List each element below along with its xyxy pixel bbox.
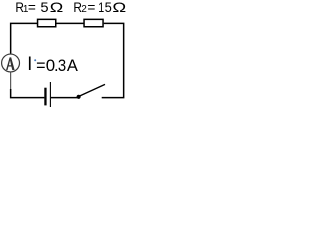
svg-text:I: I [27,54,32,75]
battery B1 positive plate (long thin) [49,82,51,108]
wire between R1 and R2 [56,22,83,24]
svg-text:3: 3 [58,57,66,75]
wire battery to switch pivot [51,97,77,99]
svg-text:2: 2 [81,4,87,15]
value label R1=5Ω [15,0,63,15]
resistor R1 [38,19,56,26]
value label R2=15Ω [73,0,126,15]
svg-text:A: A [67,57,78,75]
switch S1 pivot dot [77,95,81,99]
ammeter A1 circle [2,54,20,72]
svg-text:5: 5 [105,0,112,15]
svg-text:Ω: Ω [50,0,64,15]
resistor R2 [84,19,103,26]
wire R2 to top-right corner, right vertical, bottom-right to switch fixed contact [102,23,124,97]
switch S1 lever (open) [79,84,105,96]
svg-text:=: = [28,0,36,15]
value label I=0.3A [27,54,78,75]
small dot mark after I [34,59,36,61]
svg-text:5: 5 [40,0,48,15]
svg-text:=: = [87,0,95,15]
ammeter A1 letter A [6,57,15,70]
battery B1 negative plate (short thick) [44,88,46,106]
svg-text:Ω: Ω [112,0,126,15]
wire below ammeter [10,72,12,90]
svg-text:1: 1 [98,0,104,15]
svg-text:=: = [36,57,45,75]
wire bottom-left corner to battery [11,89,45,98]
wire left vertical and top-left segment to R1 [11,23,37,54]
